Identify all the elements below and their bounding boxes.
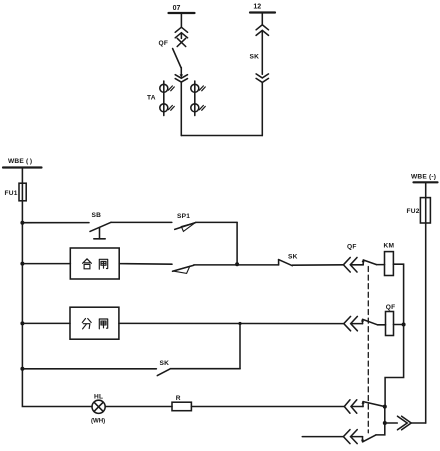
svg-text:FU1: FU1 [5,190,18,197]
wire down right primary [261,82,263,135]
wire row3 left [22,322,70,324]
wire KM out [393,264,403,324]
node row1 on rail [20,221,24,225]
contact SP1 triangle [181,223,195,232]
svg-text:QF: QF [159,40,169,47]
svg-text:KM: KM [384,243,395,250]
wire output row left [385,422,398,424]
wire row3 from box [119,322,344,324]
wire to KM coil [377,264,385,266]
svg-text:WBE ( ): WBE ( ) [8,158,32,165]
character 分 [82,319,91,329]
contact SP2 triangle [173,266,190,273]
wire row5 lamp to R [105,406,172,408]
node row3 on rail [20,321,24,325]
node row2 on rail [20,262,24,266]
svg-text:SK: SK [288,253,298,260]
QF aux blade row2 [363,260,376,265]
primary bottom wire [181,135,262,137]
fuse FU2 [420,198,430,223]
svg-text:FU2: FU2 [407,208,420,215]
character 合 [83,259,92,269]
svg-text:SK: SK [250,54,260,61]
contact SK blade [279,260,293,266]
node SP1/row2 [235,262,239,266]
node KM/QF junction [402,323,406,327]
svg-text:SP1: SP1 [177,213,190,220]
wire row6 [302,436,343,438]
QF aux blade row3 [363,319,378,324]
wire row2 right [292,264,343,266]
wire down left primary [180,82,182,135]
node SK-row riser [238,322,241,325]
wire down with jog [385,325,404,407]
svg-text:WBE (-): WBE (-) [411,173,436,180]
wire row5 down [384,407,386,423]
wire from busbar 12 [261,13,263,25]
tripping relay box 分闸 [70,307,119,339]
svg-text:QF: QF [347,243,357,250]
mechanical linkage dashed line QF [367,267,369,433]
svg-text:QF: QF [386,304,396,311]
drawout aux contact row2 [343,258,363,273]
drawout aux contact row5 [344,400,363,413]
wire row2 left [22,263,70,265]
contactor coil KM [385,252,394,276]
wire row1 right [196,221,237,223]
drawout aux contact row6 [343,430,362,444]
wire row5 right [191,406,344,408]
trip coil QF [386,312,394,336]
wire row2 from box [119,263,172,266]
svg-text:TA: TA [147,95,156,102]
QF aux contact hook row6 [361,437,364,443]
current transformer TA right pair [191,81,206,116]
node row4 on rail [20,367,24,371]
fuse FU1 [19,183,26,201]
breaker blade [173,49,182,69]
wire row4 left [22,368,156,370]
bus bar WBE left [3,166,42,168]
svg-text:07: 07 [173,5,181,12]
QF aux contact hook row5 [361,401,364,407]
svg-text:SK: SK [160,360,170,367]
wire blade to lower contact with arrow [180,68,183,78]
node row5 right [383,405,387,409]
indicator lamp HL [92,400,105,413]
character 闸 (1st) [99,259,107,269]
busbar 07 [169,12,195,14]
left control rail [22,168,92,407]
contact SK tick [278,260,280,265]
drawout contact upper (QF plug-in) [175,27,187,38]
wire to QF coil [378,324,386,326]
wire row4 right [171,368,241,370]
contact SP1 blade [175,223,196,230]
character 闸 (2nd) [99,319,107,329]
wire riser row4 to row3 [239,324,241,369]
closing relay box 合闸 [70,248,119,279]
QF aux blade row6 [363,435,376,442]
wire from busbar 07 [180,13,182,27]
wire row2 mid [194,264,279,266]
node output row [383,421,387,425]
svg-text:(WH): (WH) [91,417,105,424]
wire row1 left [22,222,89,224]
QF aux blade row5 [363,402,385,407]
QF aux contact hook row2 [362,259,365,264]
pushbutton SB actuator [94,228,105,239]
wire below node [376,423,385,435]
wire row1 drop to row2 [236,222,238,264]
wire SK middle [261,31,263,75]
current transformer TA left pair [160,81,175,116]
pushbutton SB blade [90,222,111,231]
svg-text:12: 12 [253,4,261,11]
busbar 12 [250,11,275,13]
wire row1 mid [111,221,172,223]
drawout aux contact row3 [344,316,363,330]
drawout contact lower (QF plug-in) [175,75,187,82]
bus bar WBE right [414,181,438,183]
svg-text:R: R [176,395,181,402]
QF aux contact hook row3 [361,319,364,324]
drawout contact lower (SK plug-in) [256,74,268,83]
circuit breaker X symbol [177,38,186,46]
contact SP2 blade [173,265,194,271]
drawout contact output (points right) [398,416,412,430]
drawout contact upper (SK plug-in) [256,25,268,36]
wire output to right rail [411,422,426,424]
wire QF coil out [394,324,404,326]
resistor R [172,402,191,411]
contact SK row4 blade [157,369,170,376]
right control rail [425,182,427,423]
svg-text:SB: SB [92,212,102,219]
